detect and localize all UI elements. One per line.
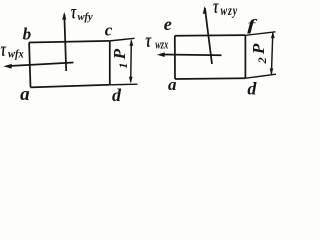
svg-text:a: a bbox=[168, 75, 177, 94]
svg-text:d: d bbox=[247, 78, 257, 98]
svg-text:2P: 2P bbox=[249, 43, 268, 65]
svg-text:f: f bbox=[247, 17, 258, 34]
svg-text:wzy: wzy bbox=[221, 2, 239, 18]
svg-text:τ: τ bbox=[1, 38, 7, 61]
svg-text:wzx: wzx bbox=[155, 39, 168, 52]
svg-text:d: d bbox=[112, 85, 122, 103]
svg-text:τ: τ bbox=[213, 0, 219, 18]
svg-text:a: a bbox=[20, 84, 30, 103]
svg-text:τ: τ bbox=[71, 0, 77, 23]
svg-text:wfx: wfx bbox=[8, 48, 24, 61]
svg-text:c: c bbox=[105, 21, 113, 40]
svg-text:τ: τ bbox=[145, 30, 152, 52]
svg-text:1P: 1P bbox=[110, 48, 129, 69]
svg-text:b: b bbox=[23, 24, 32, 43]
svg-text:e: e bbox=[164, 14, 172, 34]
svg-text:wfy: wfy bbox=[78, 12, 94, 23]
